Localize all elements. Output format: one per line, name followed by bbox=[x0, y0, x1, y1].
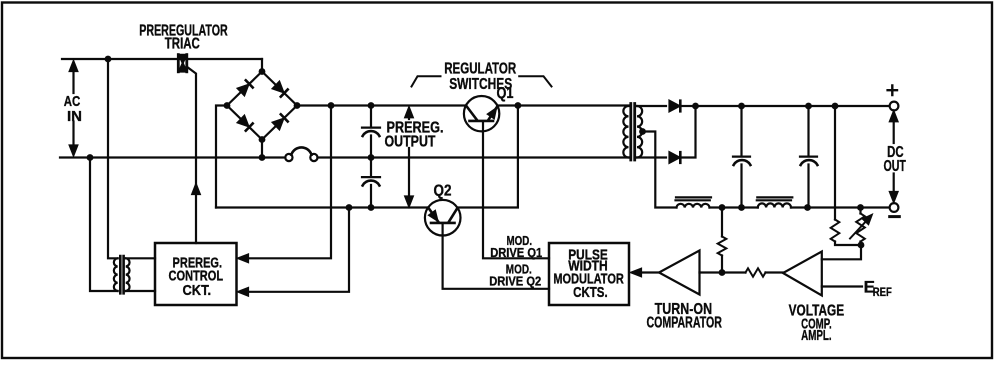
label PREREG OUTPUT bbox=[385, 119, 444, 150]
svg-text:CKT.: CKT. bbox=[183, 283, 212, 299]
svg-text:IN: IN bbox=[67, 108, 82, 125]
wire bottom AC rail left of fuse bbox=[60, 156, 285, 158]
AC IN dimension arrow down bbox=[72, 122, 74, 148]
node DC plus output terminal bbox=[890, 102, 899, 111]
label PULSE WIDTH MODULATOR CKTS bbox=[553, 247, 624, 301]
PREREG OUTPUT dimension arrow up bbox=[408, 117, 410, 119]
wire Q2 base drive bbox=[443, 225, 549, 289]
wire rail1 sense drop to prereg control input 1 bbox=[241, 106, 332, 259]
transformer T1 core bbox=[631, 104, 635, 161]
transformer T1 secondary winding bbox=[637, 106, 642, 158]
block PREREG CONTROL CKT bbox=[155, 243, 237, 305]
capacitor C3 output filter bbox=[733, 106, 750, 208]
arrow up on triac gate drive line bbox=[192, 185, 199, 195]
wire top AC rail bbox=[62, 58, 262, 60]
wire AC sense vertical from bottom rail to T2 primary bbox=[90, 158, 118, 292]
wire DC plus rail bbox=[696, 105, 890, 107]
resistor sense divider upper bbox=[831, 220, 840, 242]
label AC IN bbox=[64, 93, 82, 125]
bridge diode CR4 bottom-right bbox=[273, 119, 283, 129]
svg-text:DRIVE Q1: DRIVE Q1 bbox=[490, 245, 542, 260]
wire Q1 emitter to transformer primary bbox=[498, 104, 629, 106]
wire top rail drop to bridge top bbox=[261, 59, 263, 72]
svg-text:OUTPUT: OUTPUT bbox=[385, 133, 436, 150]
svg-text:Q2: Q2 bbox=[434, 183, 452, 200]
label TURN-ON COMPARATOR bbox=[646, 301, 722, 331]
svg-text:TRIAC: TRIAC bbox=[165, 35, 200, 52]
wire triac gate to prereg control box bbox=[187, 67, 197, 244]
svg-text:Q1: Q1 bbox=[497, 85, 514, 102]
resistor between comparator and voltage amplifier bbox=[746, 268, 766, 276]
bridge diode CR3 bottom-left bbox=[238, 116, 248, 126]
capacitor C2 lower prereg filter bbox=[362, 158, 380, 208]
bridge diode CR1 top-left bbox=[238, 85, 248, 95]
AC IN dimension arrow up bbox=[72, 70, 74, 93]
wire DC minus rail bbox=[710, 206, 890, 208]
wire T1 secondary bottom to rectifier diode bbox=[637, 156, 666, 158]
wire bridge minus to rail3 bbox=[216, 106, 227, 208]
wire half-bridge node Q1 to Q2 collector bbox=[457, 106, 518, 208]
wire rail1 bridge plus to Q1 bbox=[297, 104, 466, 106]
wire Q1 base drive bbox=[483, 123, 549, 259]
wire sense divider from DC plus rail bbox=[834, 106, 836, 220]
svg-text:REF: REF bbox=[873, 287, 892, 299]
diode CR6 secondary bottom bbox=[670, 152, 680, 162]
wire comparator output to pulse width modulator bbox=[641, 271, 659, 273]
inductor L1 output filter bbox=[677, 204, 710, 208]
wire T2 secondary to prereg control box bbox=[126, 258, 155, 291]
svg-text:OUT: OUT bbox=[883, 158, 906, 175]
label E REF bbox=[864, 278, 892, 299]
svg-text:COMPARATOR: COMPARATOR bbox=[646, 315, 722, 332]
transistor Q2 regulator switch bbox=[425, 200, 461, 236]
op-amp turn-on comparator bbox=[659, 251, 700, 295]
DC OUT dimension arrow up bbox=[893, 120, 895, 143]
svg-text:AMPL.: AMPL. bbox=[801, 327, 832, 344]
inductor L2 output filter bbox=[758, 203, 791, 207]
wire bottom rail fuse to transformer bbox=[318, 156, 629, 158]
diode CR5 secondary top bbox=[670, 101, 680, 111]
node DC minus output terminal bbox=[890, 203, 899, 212]
label REGULATOR SWITCHES bbox=[444, 60, 516, 92]
wire AC sense vertical from top rail to T2 primary bbox=[108, 59, 118, 258]
wire T1 secondary top to rectifier diode bbox=[637, 105, 666, 107]
rheostat voltage adjust bbox=[859, 208, 861, 214]
brace regulator switches label left bbox=[412, 76, 441, 86]
op-amp voltage comparison amplifier bbox=[783, 252, 822, 296]
circuit breaker in AC line bbox=[285, 154, 292, 161]
wire bridge bottom to AC rail bbox=[261, 140, 263, 158]
label PREREGULATOR TRIAC bbox=[139, 22, 228, 52]
capacitor C4 output filter bbox=[800, 106, 817, 208]
block PULSE WIDTH MODULATOR CKTS bbox=[549, 243, 629, 305]
wire divider tap to amplifier input bbox=[822, 245, 861, 259]
label VOLTAGE COMP AMPL bbox=[789, 303, 845, 345]
wire rail3 preregulated minus bbox=[216, 206, 428, 208]
wire voltage amplifier output bbox=[766, 271, 784, 273]
triac preregulator bbox=[177, 53, 188, 73]
wire rail3 sense drop to prereg control input 2 bbox=[241, 208, 350, 292]
bridge rectifier edges bbox=[227, 72, 297, 140]
transformer T2 secondary bbox=[126, 258, 130, 291]
brace regulator switches label right bbox=[519, 76, 551, 86]
transformer T2 core bbox=[120, 256, 123, 293]
svg-text:CKTS.: CKTS. bbox=[573, 285, 608, 301]
transformer T1 primary winding bbox=[623, 106, 628, 158]
transformer T2 line sense primary bbox=[114, 258, 118, 291]
resistor current sample to turn-on comparator bbox=[721, 208, 723, 237]
capacitor C1 upper prereg filter bbox=[362, 106, 380, 158]
label PREREG CONTROL CKT bbox=[169, 256, 224, 299]
label MOD DRIVE Q2 bbox=[489, 262, 541, 289]
label DC OUT bbox=[883, 144, 906, 175]
svg-text:DRIVE Q2: DRIVE Q2 bbox=[489, 274, 541, 289]
DC OUT dimension arrow down bbox=[893, 174, 895, 193]
PREREG OUTPUT dimension arrow down bbox=[408, 148, 410, 198]
wire T1 center tap to output return bbox=[642, 132, 676, 208]
transistor Q1 regulator switch bbox=[464, 96, 499, 131]
label MOD DRIVE Q1 bbox=[490, 233, 542, 260]
wire comparator input bbox=[700, 271, 746, 273]
wire E REF input bbox=[822, 285, 862, 287]
bridge diode CR2 top-right bbox=[273, 82, 283, 92]
